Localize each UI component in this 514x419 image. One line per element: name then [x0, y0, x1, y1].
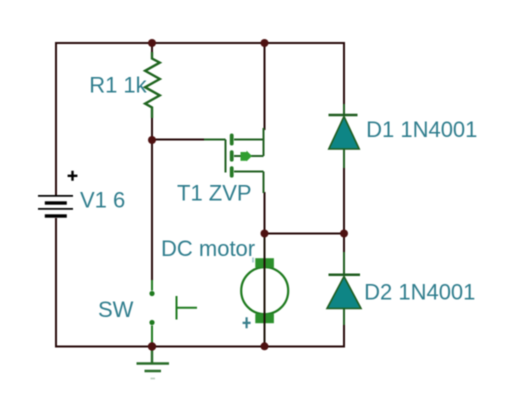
svg-text:SW: SW	[98, 297, 134, 322]
svg-text:D2 1N4001: D2 1N4001	[364, 280, 475, 305]
svg-text:T1 ZVP: T1 ZVP	[177, 181, 252, 206]
svg-text:R1 1k: R1 1k	[89, 72, 147, 97]
svg-text:DC motor: DC motor	[161, 236, 255, 261]
svg-text:D1 1N4001: D1 1N4001	[366, 117, 477, 142]
svg-text:V1 6: V1 6	[80, 187, 125, 212]
